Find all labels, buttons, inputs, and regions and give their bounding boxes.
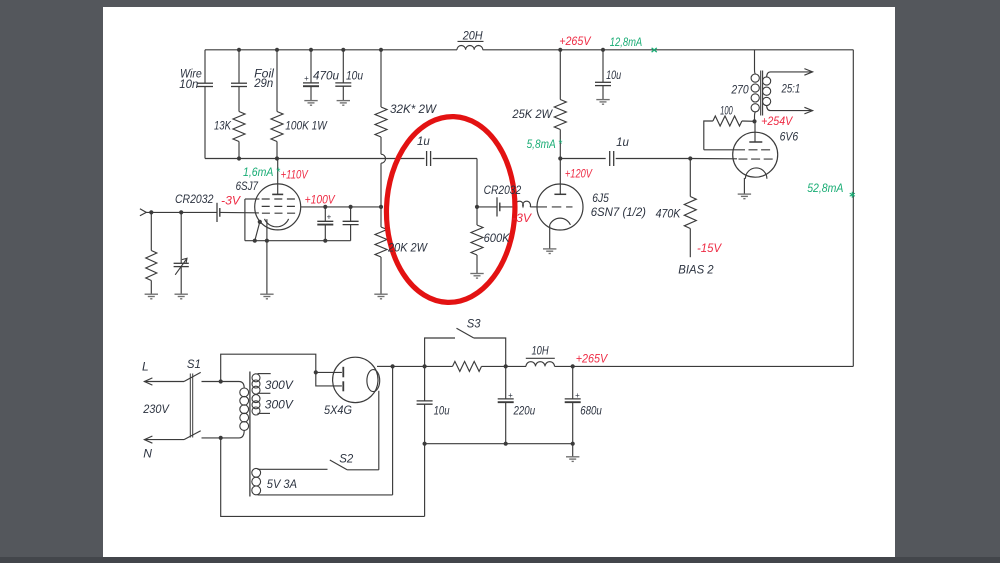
- node gnd rail 220u: [504, 442, 508, 446]
- wire primary bottom lead: [221, 430, 245, 438]
- switch S3 blade: [457, 328, 474, 338]
- wire S1 pole B contact: [202, 437, 221, 439]
- svg-text:5X4G: 5X4G: [324, 403, 352, 417]
- wire 25K to plate node: [559, 130, 561, 159]
- tube 6V6 envelope: [733, 132, 778, 177]
- wire 100K branch upper: [276, 50, 278, 112]
- node mid rail 13K: [237, 156, 241, 160]
- svg-text:32K* 2W: 32K* 2W: [390, 102, 438, 116]
- svg-text:-3V: -3V: [221, 194, 241, 208]
- resistor 32K* 2W: [375, 107, 387, 137]
- switch S1 mechanical link: [190, 374, 192, 438]
- label +120V: [565, 167, 593, 181]
- wire 6SJ7 plate rail: [205, 158, 425, 160]
- battery CR2032 bias 1: [217, 203, 220, 222]
- svg-text:+100V: +100V: [305, 192, 336, 206]
- wire cathode to ground: [266, 241, 268, 295]
- wire 600K to ground: [476, 255, 478, 274]
- wire S3 riser left: [425, 338, 455, 366]
- svg-text:230V: 230V: [142, 402, 169, 416]
- wire 10u filter to gnd rail: [424, 404, 426, 444]
- transformer T1 HV winding upper 300V: [252, 374, 260, 394]
- page bottom shadow strip: [0, 557, 1000, 563]
- wire grid node to battery: [477, 206, 497, 208]
- 5X4G lower plate bar: [342, 381, 344, 391]
- wire grid double loop: [516, 201, 531, 207]
- label 300V upper: [265, 378, 294, 392]
- transformer OPT primary winding: [751, 74, 759, 112]
- node gnd rail 10u: [423, 442, 427, 446]
- label 100: [720, 103, 733, 117]
- label 230V: [142, 402, 169, 416]
- wire shunt resistor branch: [150, 212, 152, 250]
- arrow mains L: [144, 378, 152, 385]
- wire 6SJ7 suppressor stub: [245, 198, 260, 200]
- svg-text:12,8mA: 12,8mA: [610, 35, 642, 49]
- node 6J5 grid network: [475, 205, 479, 209]
- svg-text:+: +: [508, 391, 513, 400]
- label N: [143, 447, 152, 461]
- node bus / cathode: [265, 239, 269, 243]
- ground 20K: [374, 294, 387, 299]
- ground 10u mid: [596, 100, 609, 105]
- svg-text:6V6: 6V6: [780, 130, 799, 144]
- svg-text:S3: S3: [467, 316, 481, 330]
- switch S2 blade: [330, 460, 347, 470]
- wire 6V6 screen lead: [704, 149, 745, 151]
- label + of 220u: [508, 391, 513, 400]
- label + of 470u: [304, 74, 309, 83]
- svg-text:6J5: 6J5: [592, 191, 609, 205]
- capacitor 1u coupling B: [610, 151, 614, 166]
- label +265V top: [559, 34, 591, 48]
- wire cap1 bottom lead: [324, 225, 326, 241]
- resistor 600K: [471, 225, 483, 255]
- wire cap1 top lead: [324, 207, 326, 221]
- svg-text:CR2032: CR2032: [175, 192, 214, 206]
- label 52,8mA: [807, 181, 843, 195]
- node primary bottom: [219, 436, 223, 440]
- label 32K* 2W: [390, 102, 438, 116]
- svg-text:470K: 470K: [656, 207, 682, 221]
- svg-text:10u: 10u: [606, 68, 621, 82]
- resistor input shunt: [146, 251, 157, 281]
- label L: [142, 360, 149, 374]
- switch S1 pole A blade: [184, 372, 201, 381]
- trimmer arrow: [175, 258, 187, 275]
- svg-text:+254V: +254V: [761, 114, 793, 128]
- 5X4G filament circle: [367, 370, 380, 392]
- node 680u filter: [571, 364, 575, 368]
- label 6V6: [780, 130, 799, 144]
- ground 10u top-left: [337, 101, 350, 106]
- label S3: [467, 316, 481, 330]
- wire battery2 to loop: [500, 206, 516, 208]
- 6J5 grid dashes: [538, 206, 573, 208]
- wire to upper plate: [316, 371, 342, 373]
- svg-text:13K: 13K: [214, 119, 232, 133]
- svg-text:100K 1W: 100K 1W: [285, 119, 328, 133]
- wire cap2 top lead: [350, 207, 352, 221]
- wire corner down to grid node: [476, 159, 478, 207]
- node top rail +265V: [558, 48, 562, 52]
- label 13K: [214, 119, 232, 133]
- label 10n: [179, 77, 198, 91]
- wire suppressor down: [244, 199, 246, 241]
- 6V6 cathode arc: [745, 168, 767, 179]
- label 1u B: [616, 135, 629, 149]
- wire 1u A to corner: [433, 158, 477, 160]
- label 6SN7 (1/2): [591, 205, 646, 219]
- ground 470u: [304, 101, 317, 106]
- node bus / envelope tie: [253, 239, 257, 243]
- label 25:1: [781, 82, 801, 96]
- inductor 10H: [526, 362, 555, 367]
- wire 6J5 cathode lead: [549, 225, 551, 249]
- arrow OPT secondary top: [804, 69, 812, 76]
- wire 220u to gnd rail: [505, 402, 507, 444]
- wire 6V6 plate lead: [754, 122, 756, 143]
- label 10u filter: [434, 403, 450, 417]
- wire B+ rail A: [393, 365, 453, 367]
- wire envelope tie to bus: [255, 222, 260, 241]
- label 20K 2W: [387, 240, 428, 254]
- wire cathode bottom bus: [245, 240, 351, 242]
- label 220u: [513, 403, 536, 417]
- inductor 10H core line: [526, 357, 555, 359]
- 6V6 screen dashes: [749, 149, 774, 151]
- capacitor 220u: [498, 399, 514, 402]
- label 5V 3A: [267, 477, 297, 491]
- 6J5 plate bar: [554, 193, 566, 195]
- node top rail / 32K branch: [379, 48, 383, 52]
- svg-text:BIAS 2: BIAS 2: [678, 263, 714, 277]
- wire plate feed riser: [221, 354, 316, 381]
- svg-text:10u: 10u: [434, 403, 450, 417]
- ground input shunt: [145, 294, 158, 299]
- ground 6SJ7 cathode: [260, 294, 273, 299]
- svg-text:5V 3A: 5V 3A: [267, 477, 297, 491]
- wire screen node to 20K: [380, 207, 382, 227]
- wire 470K to bias tail: [689, 229, 691, 258]
- node input / trimmer cap: [179, 210, 183, 214]
- svg-text:25:1: 25:1: [781, 82, 801, 96]
- wire 470u to ground: [310, 86, 312, 100]
- label +110V: [281, 167, 309, 181]
- wire 10u to ground: [342, 86, 344, 100]
- wire S1 pole A contact: [202, 381, 221, 383]
- node +254V plate: [752, 119, 756, 123]
- svg-text:25K 2W: 25K 2W: [511, 107, 553, 121]
- 6SJ7 cathode arc: [265, 219, 289, 227]
- wire 220u lead: [505, 366, 507, 399]
- resistor 470K: [684, 197, 696, 229]
- node bus / cap1: [323, 239, 327, 243]
- svg-text:+: +: [575, 391, 580, 400]
- wire 6SJ7 cathode lead: [266, 219, 268, 241]
- 6J5 cathode arc: [550, 218, 571, 225]
- svg-text:5,8mA *: 5,8mA *: [527, 137, 563, 151]
- wire 6SJ7 screen line: [301, 206, 381, 208]
- capacitor screen bypass film: [343, 221, 359, 224]
- wire grid node to 600K: [476, 207, 478, 225]
- inductor 20H: [457, 45, 483, 49]
- wire 100R right to plate node: [742, 120, 755, 122]
- label 300V lower: [265, 397, 294, 411]
- node 6V6 grid / 470K: [688, 156, 692, 160]
- label +265V bottom: [576, 351, 608, 365]
- wire 6J5 plate lead: [559, 159, 561, 195]
- wire grid node to 6V6: [690, 158, 737, 160]
- wire HV bottom stub: [258, 412, 271, 414]
- label Foil: [254, 67, 274, 81]
- svg-text:CR2032: CR2032: [484, 183, 522, 197]
- node B+ takeoff: [391, 364, 395, 368]
- label 1,6mA *: [243, 165, 280, 179]
- capacitor 680u: [565, 399, 581, 402]
- capacitor 10u filter: [417, 401, 433, 404]
- node screen divider junction: [379, 205, 383, 209]
- label 25K 2W: [511, 107, 553, 121]
- svg-text:+: +: [304, 74, 309, 83]
- wire 1u B to 470K node: [616, 158, 691, 160]
- resistor 100 screen stopper: [713, 116, 742, 126]
- wire top supply rail right of 20H: [483, 49, 854, 51]
- node screen bypass cap2: [349, 205, 353, 209]
- svg-text:+: +: [327, 212, 332, 221]
- wire battery1 to 6SJ7 grid: [220, 211, 259, 214]
- ground 6J5 cathode: [543, 249, 556, 254]
- label +100V: [305, 192, 336, 206]
- capacitor 1u coupling A: [427, 151, 431, 166]
- node top rail / foil branch: [237, 48, 241, 52]
- node top rail / 100K branch: [275, 48, 279, 52]
- svg-text:10u: 10u: [346, 69, 363, 83]
- wire input to battery1: [146, 211, 217, 213]
- svg-text:S1: S1: [187, 357, 201, 371]
- transformer T1 HV winding lower 300V: [252, 395, 260, 415]
- wire top supply rail left of 20H: [205, 49, 457, 51]
- wire 5V bottom lead: [258, 494, 393, 496]
- resistor 13K: [233, 112, 245, 142]
- wire foil branch upper: [238, 50, 240, 83]
- node mid rail 100K / 6SJ7 plate: [275, 156, 279, 160]
- svg-text:1u: 1u: [417, 134, 430, 148]
- wire left rail lower: [204, 87, 206, 159]
- svg-text:100: 100: [720, 103, 733, 117]
- inductor 20H core line: [458, 40, 484, 42]
- wire OPT primary bottom lead: [755, 112, 756, 122]
- wire return riser: [424, 444, 426, 517]
- arrow mains N: [144, 436, 152, 443]
- label + of 680u: [575, 391, 580, 400]
- wire S3 right: [474, 338, 506, 366]
- label 10u top-left: [346, 69, 363, 83]
- transformer OPT core: [761, 71, 763, 116]
- node screen bypass cap1: [323, 205, 327, 209]
- wire 13K to mid rail: [238, 142, 240, 159]
- wire filament bottom riser: [392, 366, 394, 495]
- wire foil to 13K: [238, 87, 240, 112]
- wire hop to screen node: [380, 163, 382, 207]
- wire trimmer branch: [180, 212, 182, 263]
- wire ground stub 680u: [572, 444, 574, 457]
- svg-text:S2: S2: [339, 451, 353, 465]
- node top rail / 470u branch: [309, 48, 313, 52]
- node top rail / 10u mid branch: [601, 48, 605, 52]
- label 5,8mA *: [527, 137, 563, 151]
- svg-text:52,8mA: 52,8mA: [807, 181, 843, 195]
- highlight red ellipse: [383, 114, 518, 304]
- label CR2032 first: [175, 192, 214, 206]
- resistor 25K 2W: [554, 100, 566, 130]
- transformer T1 primary winding: [240, 388, 249, 430]
- svg-text:6SN7 (1/2): 6SN7 (1/2): [591, 205, 646, 219]
- svg-text:20H: 20H: [462, 29, 483, 43]
- label 6SJ7: [236, 179, 259, 193]
- svg-text:470u: 470u: [313, 69, 339, 83]
- svg-text:220u: 220u: [513, 403, 536, 417]
- wire 5V top lead: [258, 468, 328, 470]
- svg-text:10H: 10H: [532, 343, 549, 357]
- wire 25K branch upper: [559, 50, 561, 100]
- label + of screen cap: [327, 212, 332, 221]
- wire shunt resistor to ground: [150, 281, 152, 295]
- wire 680u to gnd rail: [572, 402, 574, 444]
- svg-text:300V: 300V: [265, 397, 294, 411]
- 6SJ7 screen grid dashes: [262, 205, 296, 207]
- wire 6V6 cathode lead: [743, 178, 745, 194]
- label 270: [731, 82, 749, 96]
- 5X4G upper plate bar: [342, 367, 344, 378]
- wire 470u branch: [310, 50, 312, 83]
- label 10H: [532, 343, 549, 357]
- resistor 20K 2W: [375, 227, 387, 257]
- label Wire: [180, 67, 202, 81]
- node rectifier plate feed: [314, 370, 318, 374]
- wire B+ rail C: [555, 365, 854, 367]
- wire cathode output: [377, 365, 393, 367]
- node 220u filter: [504, 364, 508, 368]
- capacitor Wire 10n: [197, 83, 213, 86]
- wire hop over plate rail: [381, 154, 386, 163]
- wire 10u filter lead: [424, 366, 426, 401]
- svg-text:L: L: [142, 360, 149, 374]
- label CR2032 second: [484, 183, 522, 197]
- label 1u A: [417, 134, 430, 148]
- svg-text:+120V: +120V: [565, 167, 593, 181]
- wire B+ rail B: [482, 365, 527, 367]
- svg-text:+265V: +265V: [559, 34, 591, 48]
- wire bottom return rail: [221, 438, 425, 517]
- label 470K: [656, 207, 682, 221]
- marker green asterisk right rail: [850, 192, 855, 198]
- ground filter: [566, 457, 579, 462]
- ground 600K: [470, 274, 483, 279]
- wire HV top stub: [258, 373, 271, 375]
- tube 6SJ7 envelope: [255, 184, 301, 230]
- arrow OPT secondary bottom: [804, 107, 812, 114]
- transformer T1 5V winding: [252, 468, 261, 494]
- wire 100K to mid rail: [276, 142, 278, 159]
- wire S2 contact: [347, 469, 379, 471]
- wire left rail upper: [204, 50, 206, 83]
- node top rail / 10u branch: [341, 48, 345, 52]
- wire 100R left to screen: [704, 121, 713, 150]
- wire loop to 6J5 grid: [530, 206, 537, 208]
- capacitor screen bypass electrolytic: [317, 221, 333, 224]
- label 680u: [580, 403, 602, 417]
- svg-text:+110V: +110V: [281, 167, 309, 181]
- capacitor Foil 29n: [231, 83, 247, 86]
- 6V6 plate bar: [749, 141, 762, 143]
- wire to lower plate: [316, 372, 342, 386]
- label +254V: [761, 114, 793, 128]
- label BIAS 2: [678, 263, 714, 277]
- node 6J5 plate +120V: [558, 156, 562, 160]
- node envelope tie: [258, 220, 262, 224]
- marker green x: [652, 48, 657, 52]
- svg-text:600K: 600K: [484, 231, 511, 245]
- svg-text:+265V: +265V: [576, 351, 608, 365]
- node primary top: [219, 379, 223, 383]
- wire 470K upper lead: [689, 159, 691, 197]
- svg-text:20K 2W: 20K 2W: [387, 240, 428, 254]
- 6SJ7 plate bar: [272, 193, 283, 195]
- wire cap2 bottom lead: [350, 225, 352, 241]
- tube 5X4G envelope: [333, 357, 378, 402]
- wire mains N lead: [144, 439, 184, 441]
- capacitor 470u: [303, 83, 319, 86]
- label -15V: [697, 241, 722, 255]
- wire 6SJ7 plate lead: [277, 159, 279, 195]
- wire mains L lead: [144, 381, 184, 383]
- svg-text:-15V: -15V: [697, 241, 722, 255]
- white schematic page: [103, 7, 895, 558]
- switch S1 pole B blade: [184, 431, 201, 440]
- 6SJ7 suppressor grid dashes: [262, 198, 295, 200]
- label 6J5: [592, 191, 609, 205]
- svg-text:N: N: [143, 447, 152, 461]
- wire trimmer to ground: [180, 267, 182, 295]
- svg-text:29n: 29n: [253, 76, 273, 90]
- label -3V second: [512, 211, 532, 225]
- resistor filter series: [453, 361, 482, 371]
- capacitor 10u mid: [595, 82, 611, 85]
- wire 10u mid to ground: [602, 86, 604, 100]
- svg-text:1u: 1u: [616, 135, 629, 149]
- wire filament return riser: [378, 391, 380, 470]
- wire OPT secondary bottom lead: [767, 105, 813, 110]
- tube 6J5 envelope: [537, 184, 583, 230]
- label S2: [339, 451, 353, 465]
- svg-text:6SJ7: 6SJ7: [236, 179, 259, 193]
- label -3V first: [221, 194, 241, 208]
- label 600K: [484, 231, 511, 245]
- wire 32K branch upper: [380, 50, 382, 107]
- label 5X4G: [324, 403, 352, 417]
- svg-text:-3V: -3V: [512, 211, 532, 225]
- wire right vertical supply rail: [852, 50, 854, 367]
- input connector chevron: [140, 209, 146, 216]
- 6SJ7 control grid dashes: [262, 212, 296, 214]
- label 12,8mA: [610, 35, 642, 49]
- ground 6V6 cathode: [738, 194, 751, 199]
- wire OPT primary top lead: [755, 50, 756, 74]
- wire 10u mid branch: [602, 50, 604, 83]
- label 29n: [253, 76, 273, 90]
- label 10u mid: [606, 68, 621, 82]
